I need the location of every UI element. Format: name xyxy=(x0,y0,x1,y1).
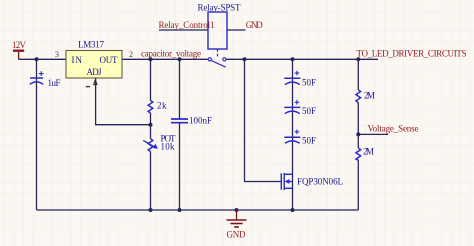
wire node to R4 xyxy=(357,134,359,148)
svg-text:100nF: 100nF xyxy=(189,116,212,126)
wire rail to capacitor C2 xyxy=(179,59,181,119)
junction dot ADJ tap xyxy=(149,123,153,127)
transistor Q1 body stub and arrow xyxy=(289,181,293,183)
junction dot GND tap xyxy=(235,208,239,212)
junction dot 2M branch xyxy=(356,57,360,61)
capacitor C2 100nF plates xyxy=(171,119,188,123)
pin number 1 (rotated dash) xyxy=(86,86,90,88)
svg-text:50F: 50F xyxy=(302,77,316,87)
svg-text:2: 2 xyxy=(129,50,133,59)
svg-text:GND: GND xyxy=(246,20,263,30)
capacitor C4 50F plates xyxy=(284,107,300,113)
wire resistor R1 to POT xyxy=(150,113,152,139)
svg-text:FQP30N06L: FQP30N06L xyxy=(297,177,343,187)
junction dot at 1uF tap xyxy=(35,57,39,61)
svg-text:ADJ: ADJ xyxy=(87,67,102,77)
ground symbol stem xyxy=(236,210,238,220)
svg-text:Relay_Control1: Relay_Control1 xyxy=(159,20,215,30)
svg-text:Relay-SPST: Relay-SPST xyxy=(198,3,242,13)
svg-text:10k: 10k xyxy=(161,141,176,151)
regulator U1 LM317 body xyxy=(66,51,122,79)
svg-text:LM317: LM317 xyxy=(78,40,105,50)
wire R3 to Voltage_Sense node xyxy=(357,103,359,135)
capacitor C5 50F plates xyxy=(284,137,300,143)
capacitor C4 plus sign xyxy=(295,100,300,105)
svg-text:50F: 50F xyxy=(302,106,316,116)
ADJ pin wire down xyxy=(96,78,151,125)
relay K1 switch contact left xyxy=(208,58,211,61)
transistor Q1 channel bar xyxy=(283,173,285,190)
bottom rail wire xyxy=(37,209,359,211)
svg-text:50F: 50F xyxy=(302,136,316,146)
junction dot POT bottom xyxy=(149,208,153,212)
relay K1 switch blade xyxy=(211,61,225,68)
junction dot 100nF tap xyxy=(178,57,182,61)
power port 12V stem xyxy=(18,52,20,59)
wire coil to GND xyxy=(227,29,246,31)
wire junction down to capacitor C1 and bottom rail xyxy=(36,59,38,210)
svg-text:capacitor_voltage: capacitor_voltage xyxy=(141,49,201,59)
power port 12V bar symbol xyxy=(13,50,24,52)
capacitor C1 plus sign xyxy=(39,71,44,76)
svg-text:2k: 2k xyxy=(157,101,167,111)
wire R4 to bottom rail xyxy=(357,160,359,210)
potentiometer R2 arrow xyxy=(143,140,154,147)
resistor R3 2M zigzag xyxy=(356,90,361,103)
junction dot Voltage_Sense xyxy=(356,132,360,136)
wire stub Voltage_Sense xyxy=(358,133,388,135)
ground symbol bars xyxy=(227,220,247,227)
resistor R1 2k zigzag xyxy=(148,100,153,113)
transistor Q1 source stub xyxy=(284,187,292,189)
resistor R4 2M zigzag xyxy=(356,148,361,160)
ADJ pin triangle decoration xyxy=(94,80,97,85)
svg-text:Voltage_Sense: Voltage_Sense xyxy=(368,123,419,133)
potentiometer R2 zigzag xyxy=(148,139,153,152)
capacitor C1 1uF polarized plates xyxy=(30,78,43,84)
svg-text:OUT: OUT xyxy=(100,55,119,65)
relay K1 switch contact right xyxy=(223,58,226,61)
svg-text:1uF: 1uF xyxy=(48,78,61,88)
wire rail down through supercaps to MOSFET and bottom rail xyxy=(292,59,294,210)
wire POT to bottom rail xyxy=(150,152,152,210)
wire 12V to LM317 IN xyxy=(19,58,66,60)
junction dot gate branch xyxy=(243,57,247,61)
junction dot 2k tap xyxy=(149,57,153,61)
wire rail to resistor R3 xyxy=(357,59,359,90)
svg-text:TO_LED_DRIVER_CIRCUITS: TO_LED_DRIVER_CIRCUITS xyxy=(357,49,467,59)
junction dot MOSFET source bottom xyxy=(291,208,295,212)
svg-text:2M: 2M xyxy=(363,146,374,156)
junction dot 100nF bottom xyxy=(178,208,182,212)
svg-text:IN: IN xyxy=(72,55,83,65)
relay K1 actuator dashed link xyxy=(217,49,219,58)
svg-text:3: 3 xyxy=(55,50,59,59)
capacitor C3 50F plates xyxy=(284,78,300,84)
transistor Q1 FQP30N06L gate bar xyxy=(280,173,282,189)
wire rail to resistor R1 xyxy=(150,59,152,100)
capacitor C3 plus sign xyxy=(295,71,300,76)
svg-text:2M: 2M xyxy=(364,91,375,101)
svg-text:12V: 12V xyxy=(12,40,27,50)
wire rail to MOSFET gate xyxy=(245,59,282,181)
junction dot supercap branch xyxy=(291,57,295,61)
wire capacitor C2 to bottom rail xyxy=(179,123,181,210)
wire switch to TO_LED_DRIVER_CIRCUITS xyxy=(226,58,378,60)
transistor Q1 drain stub xyxy=(284,173,292,175)
wire LM317 OUT to switch xyxy=(122,58,208,60)
svg-text:GND: GND xyxy=(227,229,247,239)
relay K1 coil box xyxy=(208,12,227,49)
capacitor C5 plus sign xyxy=(295,130,300,135)
wire Relay_Control1 to coil xyxy=(159,29,208,31)
